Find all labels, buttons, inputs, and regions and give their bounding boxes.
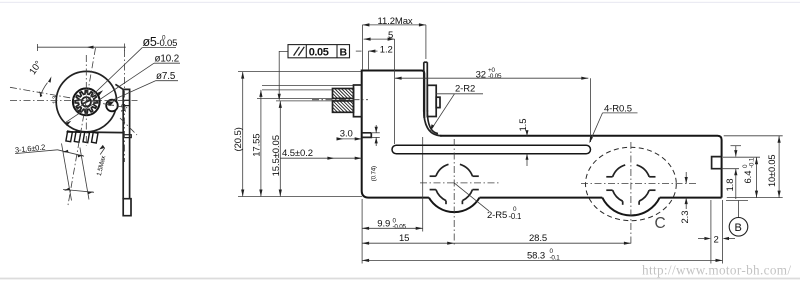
- pin 3: [83, 132, 89, 143]
- svg-text:0.05: 0.05: [309, 46, 329, 58]
- dim 58.3: [362, 259, 722, 261]
- right hole centerlines: [630, 142, 632, 246]
- 3-1.6 dim line to pins: [58, 150, 85, 156]
- pin 2: [74, 132, 80, 143]
- boss bar on plate: [123, 100, 129, 105]
- dim 10+-0.05: [724, 135, 783, 137]
- right hole bulge: [602, 198, 659, 216]
- svg-text:-0.05: -0.05: [393, 224, 407, 231]
- svg-text:http://www.motor-bh.com/: http://www.motor-bh.com/: [642, 263, 791, 278]
- 45deg short centerline: [120, 118, 137, 135]
- dim 32: [395, 77, 589, 79]
- dim 2.3: [685, 172, 687, 184]
- svg-text:5: 5: [388, 30, 393, 41]
- label 2-R5: [454, 183, 489, 211]
- leader dia10.2: [65, 63, 155, 123]
- dim (20.5): [242, 72, 244, 197]
- svg-text:11.2Max: 11.2Max: [378, 16, 413, 27]
- tilted pin centerline: [68, 48, 96, 205]
- svg-text:10±0.05: 10±0.05: [767, 155, 777, 187]
- slot: [392, 145, 591, 154]
- svg-text:1.5: 1.5: [518, 119, 529, 132]
- svg-text:1.5Max: 1.5Max: [96, 154, 108, 176]
- left hole centerlines: [453, 139, 455, 246]
- leader dia7.5: [107, 81, 155, 103]
- bracket leg: [423, 62, 425, 112]
- tilted 10deg axis line: [10, 87, 130, 108]
- idler circle: [106, 100, 118, 112]
- svg-text:2-R2: 2-R2: [455, 84, 475, 95]
- svg-text:15: 15: [399, 233, 409, 244]
- gear extension lines: [262, 84, 354, 86]
- dim (0.74): [371, 132, 380, 134]
- shaft centerline: [312, 99, 368, 101]
- dim 15.5+-0.05: [279, 101, 281, 197]
- leader dia5: [76, 48, 143, 112]
- gear teeth: [75, 91, 97, 113]
- pinion hatched top: [333, 89, 354, 99]
- motor flat bottom: [67, 131, 124, 134]
- svg-text:17.55: 17.55: [251, 134, 262, 157]
- bracket bend R2: [424, 110, 442, 136]
- chamfer to plate: [115, 84, 123, 89]
- feature control frame: [288, 45, 350, 58]
- dim 1.8: [722, 168, 739, 170]
- svg-text:2.3: 2.3: [680, 211, 691, 224]
- datum B: [726, 200, 748, 202]
- dim 9.9: [361, 199, 363, 264]
- svg-text:-0.05: -0.05: [488, 73, 502, 80]
- svg-text:2: 2: [714, 234, 719, 245]
- svg-text:28.5: 28.5: [529, 233, 547, 244]
- pin 4: [92, 132, 98, 143]
- svg-text:1.8: 1.8: [725, 179, 736, 192]
- terminal tab notch: [362, 133, 372, 138]
- motor body: [362, 71, 429, 198]
- svg-text:1.3: 1.3: [121, 104, 128, 113]
- svg-text:ø5: ø5: [143, 35, 157, 49]
- svg-text:B: B: [340, 46, 348, 58]
- svg-text:(20.5): (20.5): [233, 127, 244, 151]
- plate bottom tab: [123, 199, 131, 216]
- gear hub: [82, 97, 91, 106]
- svg-text:32: 32: [476, 70, 486, 81]
- bottom extension line: [238, 196, 362, 198]
- pin 1: [66, 131, 72, 142]
- dim 11.2Max: [362, 24, 426, 26]
- svg-text:2-R5: 2-R5: [487, 210, 507, 221]
- dim 15: [362, 242, 454, 244]
- dim 17.55: [260, 90, 262, 197]
- horizontal centerline: [10, 100, 138, 102]
- dim 28.5: [454, 242, 631, 244]
- top reference line: [37, 46, 125, 48]
- plate bottom edge segments: [429, 197, 722, 199]
- right dashed ellipse: [586, 147, 677, 220]
- svg-text:58.3: 58.3: [527, 250, 545, 261]
- 1.5Max arrow and text: [99, 145, 105, 150]
- shaft flange: [354, 85, 362, 117]
- plate strip centerline: [123, 50, 125, 162]
- svg-text:1.3: 1.3: [52, 95, 59, 104]
- svg-text:-0.1: -0.1: [509, 212, 522, 221]
- dim 2: [710, 200, 712, 264]
- svg-text:9.9: 9.9: [377, 219, 390, 230]
- dim 5: [364, 38, 395, 40]
- plate top edge: [440, 136, 722, 198]
- dim 6.4: [723, 156, 760, 158]
- svg-text:6.4: 6.4: [743, 171, 754, 184]
- svg-text:B: B: [735, 222, 742, 234]
- bearing boss: [427, 85, 436, 116]
- 10 deg angle arc: [40, 83, 47, 97]
- faint top border: [0, 2, 800, 3]
- right hole pattern: [606, 165, 655, 205]
- svg-text:1.2: 1.2: [380, 44, 393, 55]
- terminal bar on plate: [123, 135, 131, 138]
- svg-text:C: C: [655, 215, 666, 232]
- svg-text:10°: 10°: [27, 59, 44, 77]
- svg-text:-0.1: -0.1: [749, 157, 756, 168]
- pin dim extension lines: [62, 143, 72, 200]
- pinion hatched bottom: [333, 101, 354, 112]
- left hole pattern: [430, 164, 479, 204]
- bottom strip: [0, 278, 800, 280]
- pin spacing dim: [63, 189, 94, 192]
- right edge notch: [712, 157, 722, 169]
- svg-text:15.5±0.05: 15.5±0.05: [271, 135, 282, 176]
- top extension line: [238, 71, 362, 73]
- gear shroud circle: [73, 88, 100, 115]
- svg-text:-0.1: -0.1: [550, 255, 561, 262]
- dim 3-1.6: [15, 143, 46, 155]
- svg-text:3.0: 3.0: [340, 129, 353, 140]
- left hole bulge: [429, 198, 480, 213]
- vertical centerline: [85, 55, 87, 146]
- svg-text:4.5±0.2: 4.5±0.2: [282, 148, 313, 159]
- FCF leader: [279, 51, 288, 98]
- motor can circle: [56, 71, 116, 131]
- svg-text:(0.74): (0.74): [370, 166, 377, 181]
- bracket plate edge-on: [123, 89, 129, 198]
